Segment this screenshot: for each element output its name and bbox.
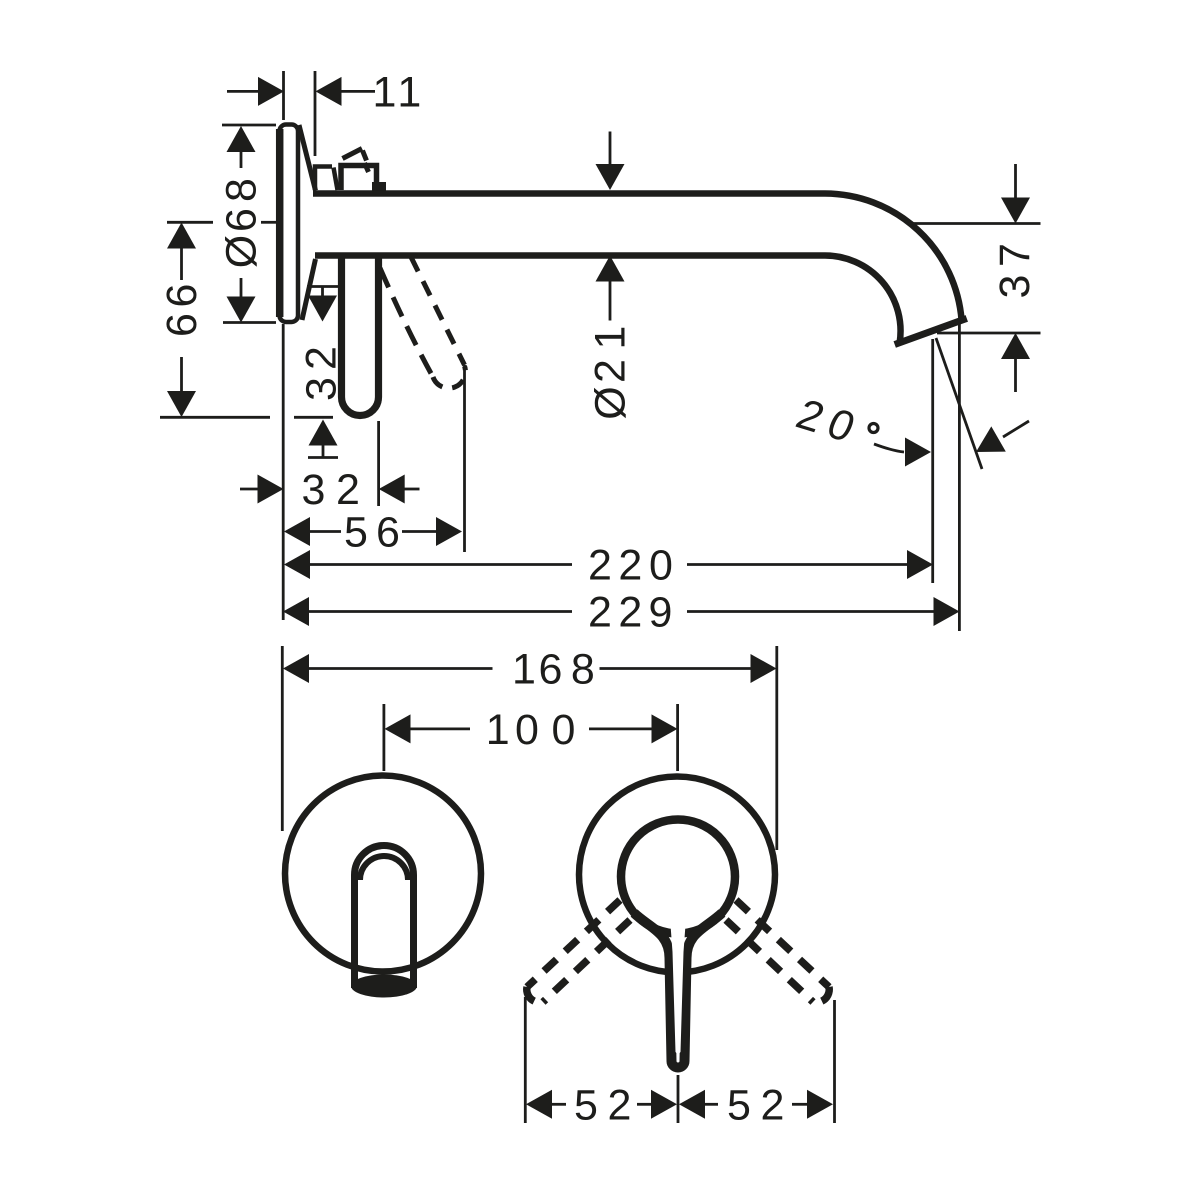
svg-text:220: 220 bbox=[588, 542, 673, 590]
svg-text:Ø68: Ø68 bbox=[218, 178, 266, 268]
svg-text:168: 168 bbox=[512, 646, 595, 694]
svg-text:32: 32 bbox=[302, 466, 360, 514]
svg-text:100: 100 bbox=[486, 706, 576, 754]
svg-text:Ø21: Ø21 bbox=[587, 326, 635, 420]
svg-text:52: 52 bbox=[727, 1081, 784, 1129]
svg-text:37: 37 bbox=[991, 243, 1039, 298]
svg-text:229: 229 bbox=[588, 589, 672, 637]
svg-text:56: 56 bbox=[344, 509, 400, 557]
svg-text:52: 52 bbox=[574, 1081, 631, 1129]
svg-text:11: 11 bbox=[373, 68, 422, 116]
svg-text:66: 66 bbox=[158, 284, 206, 337]
svg-text:20: 20 bbox=[789, 391, 861, 452]
